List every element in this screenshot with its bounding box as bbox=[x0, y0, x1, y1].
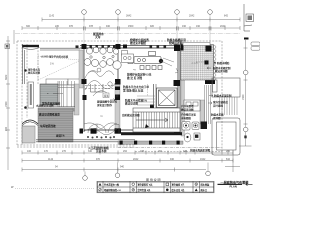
svg-text:190: 190 bbox=[182, 25, 187, 28]
svg-text:百叶遮挡: 百叶遮挡 bbox=[213, 103, 224, 107]
svg-text:300: 300 bbox=[26, 25, 31, 28]
svg-text:做 法 见 详图: 做 法 见 详图 bbox=[126, 76, 143, 80]
svg-text:842: 842 bbox=[224, 15, 229, 18]
svg-text:340: 340 bbox=[88, 150, 93, 153]
svg-text:水电图纸: 水电图纸 bbox=[181, 116, 192, 120]
svg-text:842: 842 bbox=[226, 158, 231, 161]
svg-text:做法见详图纸: 做法见详图纸 bbox=[129, 41, 146, 45]
svg-text:270: 270 bbox=[55, 25, 60, 28]
svg-text:188: 188 bbox=[140, 150, 145, 153]
svg-text:190: 190 bbox=[196, 25, 201, 28]
svg-text:1500: 1500 bbox=[128, 25, 134, 28]
svg-text:262: 262 bbox=[123, 150, 128, 153]
svg-text:坡道1%: 坡道1% bbox=[56, 134, 65, 138]
svg-text:348: 348 bbox=[183, 150, 188, 153]
svg-text:做法见详图: 做法见详图 bbox=[214, 69, 228, 73]
svg-text:—层庭院电气布置图: —层庭院电气布置图 bbox=[221, 179, 249, 184]
svg-text:100: 100 bbox=[27, 150, 32, 153]
svg-text:3642: 3642 bbox=[5, 74, 8, 80]
svg-text:做法见详图纸坡道: 做法见详图纸坡道 bbox=[38, 113, 60, 117]
svg-text:976: 976 bbox=[69, 25, 74, 28]
svg-text:台阶做法见详图: 台阶做法见详图 bbox=[122, 113, 140, 117]
svg-text:920: 920 bbox=[150, 25, 155, 28]
svg-text:3642: 3642 bbox=[126, 15, 132, 18]
svg-text:-0.020: -0.020 bbox=[191, 62, 198, 65]
svg-text:±0.000 室外平台排水找坡: ±0.000 室外平台排水找坡 bbox=[41, 55, 69, 59]
svg-text:262: 262 bbox=[158, 150, 163, 153]
svg-text:470: 470 bbox=[44, 150, 49, 153]
svg-text:940: 940 bbox=[106, 25, 111, 28]
svg-text:深化设计制作: 深化设计制作 bbox=[97, 103, 113, 107]
svg-text:200: 200 bbox=[226, 150, 231, 153]
svg-text:防腐木花架定制: 防腐木花架定制 bbox=[214, 94, 232, 98]
svg-text:入口: 入口 bbox=[24, 120, 29, 123]
svg-text:需 现场 确认 标高: 需 现场 确认 标高 bbox=[123, 88, 144, 92]
svg-text:940: 940 bbox=[120, 165, 125, 168]
svg-text:做法见详图: 做法见详图 bbox=[27, 70, 41, 74]
svg-text:1142: 1142 bbox=[48, 158, 54, 161]
svg-text:978: 978 bbox=[89, 25, 94, 28]
svg-text:见详图: 见详图 bbox=[213, 116, 221, 120]
svg-text:970: 970 bbox=[96, 158, 101, 161]
svg-text:2042: 2042 bbox=[189, 15, 195, 18]
svg-text:940: 940 bbox=[5, 126, 8, 131]
svg-text:1642: 1642 bbox=[200, 158, 206, 161]
svg-text:防腐木地台: 防腐木地台 bbox=[217, 61, 230, 65]
svg-text:做法见详图: 做法见详图 bbox=[180, 107, 194, 111]
svg-text:车库坡道找坡: 车库坡道找坡 bbox=[40, 124, 56, 128]
svg-text:做法见详图: 做法见详图 bbox=[124, 102, 138, 106]
svg-text:PLAN: PLAN bbox=[230, 185, 237, 189]
svg-text:1500: 1500 bbox=[5, 101, 8, 107]
svg-text:1500: 1500 bbox=[242, 94, 245, 100]
svg-text:2040: 2040 bbox=[220, 25, 226, 28]
svg-text:1142: 1142 bbox=[49, 15, 55, 18]
svg-text:2042: 2042 bbox=[133, 158, 139, 161]
svg-text:940: 940 bbox=[170, 158, 175, 161]
svg-text:270: 270 bbox=[62, 150, 67, 153]
svg-text:室外花岗岩铺装: 室外花岗岩铺装 bbox=[42, 102, 61, 106]
svg-text:天沟: 天沟 bbox=[95, 35, 101, 39]
